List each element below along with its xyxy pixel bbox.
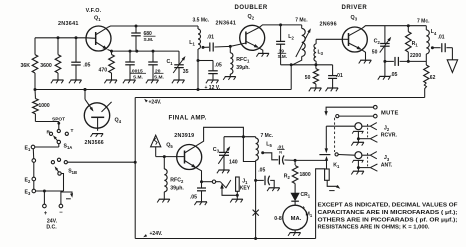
variable capacitor C2 50: [384, 26, 386, 44]
wire Q1 emitter rail: [108, 50, 112, 52]
wire J2 to relay armature: [325, 126, 327, 149]
feedthrough triangle input: [151, 135, 161, 147]
inductor L5: [255, 137, 257, 138]
svg-text:CR1: CR1: [301, 192, 311, 199]
svg-text:.05: .05: [83, 63, 90, 69]
variable slug mark X on L5 feed: [253, 210, 259, 216]
node L5 bypass: [254, 179, 257, 182]
terminal below E1: [32, 149, 34, 159]
svg-text:39μh.: 39μh.: [170, 185, 184, 191]
svg-text:J2: J2: [384, 126, 390, 133]
ground of .05: [71, 79, 82, 81]
svg-text:S1B: S1B: [68, 169, 77, 176]
svg-text:R: R: [47, 129, 51, 135]
node L1 bypass junction: [197, 59, 200, 62]
svg-text:J1: J1: [242, 179, 248, 186]
jack J2 RCVR: [326, 125, 355, 127]
switch S1B: [51, 161, 54, 164]
svg-text:S1A: S1A: [64, 144, 73, 151]
svg-text:2200: 2200: [410, 53, 421, 59]
wire +24V loop top edge: [135, 97, 425, 99]
capacitor .01 driver output: [432, 47, 440, 49]
svg-text:3.5 Mc.: 3.5 Mc.: [193, 18, 210, 24]
wire Q3 collector rail: [362, 26, 426, 29]
svg-text:+: +: [302, 205, 306, 211]
variable inductor L2: [301, 25, 303, 29]
svg-text:M1: M1: [306, 211, 313, 218]
wire Q5 emitter junction: [196, 168, 201, 182]
resistor 3600: [57, 38, 59, 55]
relay contact to J3: [335, 153, 338, 156]
inductor L3: [315, 39, 317, 44]
svg-text:.05: .05: [190, 194, 197, 200]
svg-text:3600: 3600: [40, 63, 52, 69]
svg-text:Q1: Q1: [94, 16, 101, 23]
svg-text:N: N: [279, 151, 282, 155]
svg-text:39μh.: 39μh.: [236, 65, 250, 71]
node L5 tap: [261, 151, 264, 154]
svg-text:Q3: Q3: [351, 15, 358, 22]
relay mechanical linkage dashed: [334, 118, 336, 152]
wire Q1 collector rail: [108, 26, 198, 27]
ground of 470: [106, 79, 117, 81]
svg-text:E2: E2: [25, 178, 31, 185]
ground of RFC1: [225, 76, 236, 78]
wire triangle to Q5 base: [155, 147, 157, 157]
wire S1B to final amp supply loop: [68, 161, 136, 163]
resistor 1000: [34, 90, 36, 98]
capacitor .05 emitter bypass: [201, 182, 203, 188]
svg-text:L4: L4: [431, 29, 437, 36]
svg-text:−: −: [300, 226, 304, 232]
wire output to relay armature: [295, 159, 326, 161]
svg-text:MUTE: MUTE: [381, 110, 399, 116]
wire K1 coil to chassis: [327, 180, 338, 186]
capacitor 20 S.M.: [152, 51, 154, 62]
node .05 top: [75, 36, 78, 39]
node L5 feed on +24V rail: [254, 237, 257, 240]
wire keyed +12V rail: [35, 89, 291, 91]
wire base rail VFO: [35, 37, 86, 39]
node L4 tap: [431, 46, 434, 49]
svg-text:RFC2: RFC2: [170, 178, 184, 185]
wire E3 to S1B pole: [36, 190, 64, 192]
wire +24V loop left edge: [134, 98, 136, 239]
svg-text:K1: K1: [333, 163, 340, 170]
capacitor 680 S.M.: [135, 26, 137, 33]
svg-text:E1: E1: [25, 146, 31, 153]
svg-text:L1: L1: [189, 40, 195, 47]
ground of M1: [290, 232, 301, 234]
svg-text:KEY: KEY: [240, 186, 251, 192]
svg-text:62: 62: [430, 75, 436, 81]
svg-text:+: +: [44, 211, 48, 217]
variable capacitor C3 140: [223, 137, 225, 153]
node L1 bottom to +12V rail: [197, 88, 200, 91]
svg-text:T: T: [71, 128, 74, 134]
capacitor .05 tank bypass: [256, 179, 264, 181]
resistor 36K: [34, 38, 36, 55]
wire Q2 collector rail: [260, 25, 302, 27]
ground of 20: [148, 79, 159, 81]
svg-text:E3: E3: [25, 190, 31, 197]
relay K1 coil: [325, 169, 330, 180]
svg-text:OTHERS ARE IN PICOFARADS ( pf.: OTHERS ARE IN PICOFARADS ( pf. OR μμf.);: [318, 217, 458, 223]
ground of Q2 emitter: [258, 52, 269, 54]
svg-text:C3: C3: [213, 147, 220, 154]
wire C3 to tank: [224, 136, 256, 138]
svg-text:36K: 36K: [21, 63, 31, 69]
svg-text:2N3566: 2N3566: [85, 140, 104, 146]
svg-text:S.M.: S.M.: [278, 54, 287, 59]
wire +24V loop bottom edge: [135, 238, 315, 240]
svg-text:−: −: [59, 210, 63, 216]
node 680 top: [135, 25, 138, 28]
svg-text:2N3919: 2N3919: [174, 133, 194, 139]
ground of Q3 emitter: [360, 59, 371, 61]
ground of .05: [208, 79, 219, 81]
wire Q5 collector to tank: [197, 127, 256, 161]
svg-text:CAPACITANCE ARE IN MICROFARADS: CAPACITANCE ARE IN MICROFARADS ( μf.);: [318, 210, 458, 216]
switch S1B pole: [58, 172, 61, 175]
svg-text:ANT.: ANT.: [381, 162, 393, 168]
svg-text:Q4: Q4: [115, 118, 122, 125]
ground of 3600: [53, 79, 64, 81]
resistor R2 1800: [294, 160, 296, 165]
svg-text:Q5: Q5: [166, 142, 173, 149]
variable capacitor C1 35: [178, 51, 180, 65]
wire Q4 collector: [102, 102, 112, 112]
transistor Q2 2N3641: [240, 25, 265, 50]
capacitor .01 VFO coupling: [203, 46, 209, 48]
capacitor .05 driver: [385, 60, 394, 62]
resistor 50: [315, 65, 317, 69]
wire +24V riser to relay K1: [316, 169, 326, 239]
ground of C1: [174, 79, 185, 81]
inductor L4: [425, 26, 427, 30]
ground of J3: [353, 170, 364, 172]
svg-text:DOUBLER: DOUBLER: [235, 5, 268, 11]
svg-text:140: 140: [229, 159, 238, 165]
node 3600 top: [57, 36, 60, 39]
transistor Q3 2N696: [342, 27, 367, 52]
svg-text:RESISTANCES ARE IN OHMS; K = 1: RESISTANCES ARE IN OHMS; K = 1,000.: [318, 225, 430, 231]
svg-text:50: 50: [305, 75, 311, 81]
svg-text:L2: L2: [288, 34, 294, 41]
node output junction: [294, 159, 297, 162]
ground of emitter .05: [196, 201, 207, 203]
svg-text:.01: .01: [336, 73, 343, 79]
node doubler base: [229, 45, 232, 48]
svg-text:RCVR.: RCVR.: [381, 132, 398, 138]
capacitor 39 S.M.: [280, 25, 282, 42]
svg-text:FINAL AMP.: FINAL AMP.: [169, 115, 207, 122]
svg-text:RFC1: RFC1: [236, 57, 250, 64]
svg-text:2N3641: 2N3641: [58, 21, 79, 27]
switch S1A SPOT: [35, 121, 58, 123]
svg-text:L3: L3: [318, 49, 324, 56]
capacitor .01 driver input: [332, 65, 334, 76]
wire MUTE contact: [326, 107, 375, 111]
svg-text:.05: .05: [215, 63, 222, 69]
svg-text:7 Mc.: 7 Mc.: [417, 18, 430, 24]
wire E-column: [33, 162, 35, 191]
svg-text:S.M.: S.M.: [144, 37, 154, 43]
svg-text:Q2: Q2: [248, 14, 255, 21]
svg-text:.05: .05: [258, 167, 265, 173]
node C3 junction: [242, 135, 245, 138]
svg-text:L5: L5: [266, 141, 272, 148]
meter M1 0-8 MA.: [294, 201, 296, 205]
resistor 62: [425, 61, 427, 65]
ground of .0015: [125, 79, 136, 81]
ground of tank .05: [269, 187, 280, 189]
svg-text:2N696: 2N696: [320, 22, 337, 28]
svg-text:J3: J3: [384, 155, 390, 162]
chassis at Q4 base: [92, 133, 103, 135]
ground of .01: [327, 87, 338, 89]
wire Q2 emitter to ground: [259, 48, 263, 53]
svg-text:MA.: MA.: [291, 216, 302, 222]
terminal + 24V: [43, 204, 47, 208]
wire Q4 emitter from +12V rail: [84, 88, 87, 91]
capacitor .05 on +12V line: [198, 60, 213, 62]
wire +24V positive lead: [43, 191, 45, 204]
capacitor .0015 S.M.: [129, 51, 131, 62]
svg-text:+24V.: +24V.: [149, 99, 162, 105]
capacitor .05 VFO base: [75, 38, 77, 62]
svg-text:1800: 1800: [300, 172, 311, 178]
ground of J2: [353, 141, 364, 143]
transistor Q1 2N3641: [86, 26, 111, 51]
ground of C3: [219, 169, 230, 171]
diode CR1: [291, 193, 299, 200]
svg-text:.05: .05: [390, 72, 397, 78]
svg-text:V.F.O.: V.F.O.: [86, 8, 102, 14]
transistor Q5 2N3919: [177, 145, 202, 170]
RF choke RFC1 39uh: [229, 46, 231, 52]
svg-text:7 Mc.: 7 Mc.: [295, 17, 308, 23]
svg-text:C2: C2: [374, 38, 381, 45]
capacitor .01 output coupling: [263, 153, 279, 160]
jack J1 KEY: [202, 181, 213, 183]
svg-text:7 Mc.: 7 Mc.: [261, 133, 274, 139]
transistor Q4 2N3566: [84, 103, 109, 128]
node L1 tap: [202, 46, 205, 49]
svg-text:35: 35: [183, 69, 189, 75]
svg-text:50: 50: [372, 49, 378, 55]
svg-text:.01: .01: [438, 35, 445, 41]
svg-text:2N3641: 2N3641: [216, 21, 237, 27]
svg-text:EXCEPT AS INDICATED, DECIMAL V: EXCEPT AS INDICATED, DECIMAL VALUES OF: [318, 203, 459, 209]
jack J3 ANT: [355, 152, 362, 159]
ground of 50: [310, 87, 321, 89]
svg-text:470: 470: [99, 68, 108, 74]
svg-text:1000: 1000: [39, 103, 50, 109]
ground of J1: [232, 198, 243, 200]
svg-text:R2: R2: [284, 174, 291, 181]
terminal MUTE lower: [374, 114, 378, 118]
wire Q3 emitter ground: [362, 50, 366, 60]
resistor 470: [111, 51, 113, 54]
wire +12V riser: [290, 65, 292, 90]
terminal - 24V: [59, 204, 63, 208]
svg-text:.01: .01: [207, 35, 214, 41]
wire doubler tank bottom: [281, 64, 333, 66]
ground of RFC2: [159, 198, 170, 200]
svg-text:R1: R1: [412, 41, 419, 48]
svg-text:0-8: 0-8: [274, 216, 282, 222]
relay contact bar: [319, 154, 330, 156]
wire L3 to Q3 base: [316, 38, 342, 40]
svg-text:DRIVER: DRIVER: [342, 5, 368, 11]
inductor L1: [197, 26, 199, 29]
svg-text:C1: C1: [167, 59, 174, 66]
switch S1A pole: [57, 140, 60, 143]
svg-text:+24V.: +24V.: [150, 231, 163, 237]
connection triangle to final amp: [447, 60, 457, 73]
svg-text:SPOT: SPOT: [52, 116, 65, 122]
resistor R1 2200: [407, 26, 409, 32]
RF choke RFC2 39uh: [163, 157, 165, 169]
svg-text:D.C.: D.C.: [46, 225, 57, 231]
wire negative lead to chassis: [61, 192, 72, 204]
terminal MUTE upper: [374, 105, 378, 109]
ground of C2: [379, 75, 390, 77]
